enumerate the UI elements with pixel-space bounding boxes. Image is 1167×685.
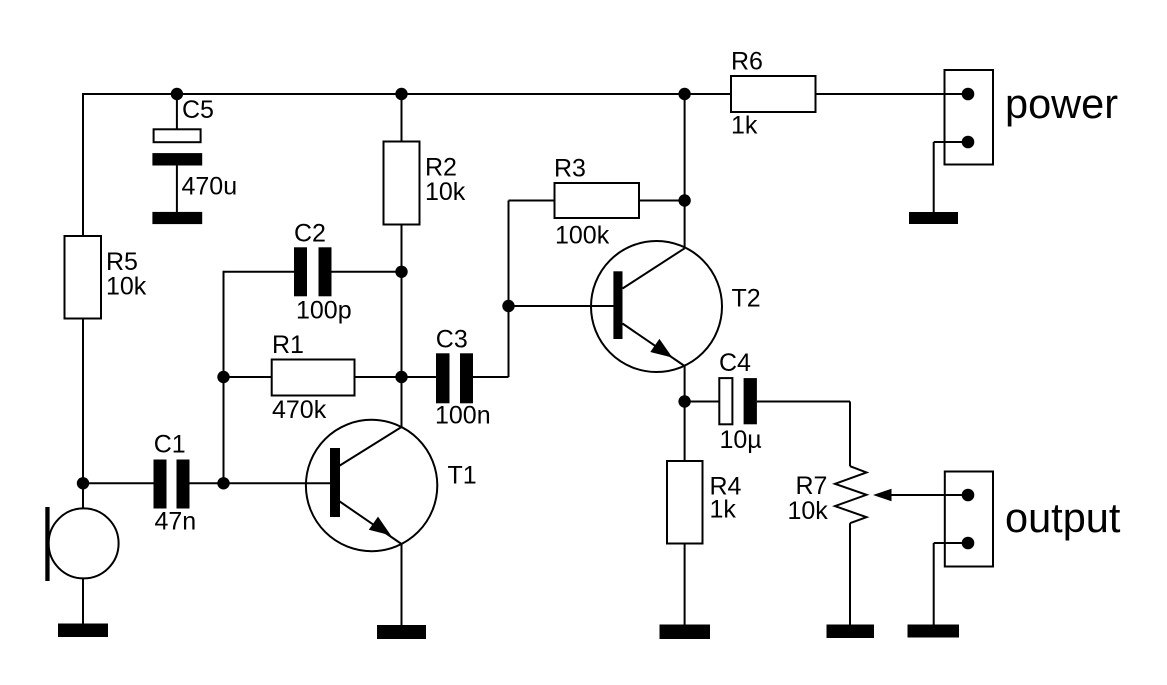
pin output 1 [962, 489, 975, 502]
junction node C1 right [217, 477, 229, 489]
capacitor C3 left plate [436, 353, 450, 403]
wire R4 bottom [684, 544, 686, 627]
wire left vertical mid (R5 to mic) [82, 319, 84, 510]
svg-text:10µ: 10µ [720, 426, 762, 454]
svg-text:470k: 470k [272, 396, 327, 424]
wire C2 right [332, 271, 402, 273]
transistor T2 emitter arrow [650, 339, 672, 358]
ground bar R7 [827, 625, 875, 639]
ground bar power connector [909, 212, 958, 224]
junction node mic C1 [77, 477, 89, 489]
resistor R2 body [384, 142, 420, 225]
svg-text:470u: 470u [182, 172, 238, 200]
microphone element bar [45, 507, 49, 581]
transistor T1 circle [306, 420, 437, 551]
ground bar R4 [660, 625, 711, 640]
svg-text:C1: C1 [154, 431, 186, 459]
resistor R1 body [272, 360, 355, 396]
resistor R3 body [555, 183, 640, 218]
svg-text:1k: 1k [710, 495, 737, 523]
svg-text:C2: C2 [294, 219, 326, 247]
ground bar output connector [908, 625, 960, 638]
wire C5 stem bottom [176, 164, 178, 213]
wire C4 right [757, 401, 850, 403]
capacitor C3 right plate [460, 353, 473, 403]
capacitor C2 left plate [294, 247, 307, 296]
junction node R1 left [217, 371, 229, 383]
ground bar microphone [58, 624, 108, 638]
capacitor C5 negative plate [152, 153, 202, 165]
svg-text:T1: T1 [448, 462, 477, 490]
junction node C4 R4 [678, 395, 690, 407]
potentiometer R7 zigzag [835, 466, 867, 523]
transistor T1 base bar [330, 448, 340, 517]
svg-text:47n: 47n [155, 508, 197, 536]
pin output 2 [962, 537, 975, 550]
junction node C2 right [395, 266, 407, 278]
resistor R5 body [65, 236, 102, 319]
wire power ground vertical [933, 142, 935, 213]
wire C3 to R3 vertical [508, 201, 510, 378]
transistor T2 emitter line [623, 324, 685, 367]
wire top rail left segment [82, 93, 731, 95]
capacitor C4 negative plate [744, 378, 757, 424]
connector power body [945, 70, 994, 165]
wire C5 stem top [176, 94, 178, 131]
wire C3 right [473, 376, 509, 378]
transistor T2 base bar [613, 271, 622, 339]
connector output body [945, 472, 993, 567]
wire C4 left [685, 401, 720, 403]
transistor T1 emitter line [339, 501, 402, 544]
wire C2 left [224, 271, 295, 273]
transistor T1 collector line [339, 427, 402, 466]
junction node R3 right [678, 194, 690, 206]
svg-text:R3: R3 [554, 154, 586, 182]
svg-text:C4: C4 [719, 349, 751, 377]
svg-text:10k: 10k [425, 178, 466, 206]
svg-text:T2: T2 [732, 284, 761, 312]
ground bar below C5 [152, 212, 202, 224]
wire mic to ground [82, 578, 84, 626]
microphone circle [49, 508, 119, 578]
wire T1 emitter vertical [401, 544, 403, 626]
svg-text:100n: 100n [435, 401, 491, 429]
wire R1 left [224, 376, 273, 378]
transistor T2 circle [591, 241, 722, 372]
svg-text:100p: 100p [296, 297, 352, 325]
svg-text:R1: R1 [272, 331, 304, 359]
svg-text:R7: R7 [796, 472, 828, 500]
pin power 2 [962, 136, 975, 149]
capacitor C4 positive plate [719, 378, 732, 424]
ground bar T1 emitter [377, 625, 426, 639]
svg-text:10k: 10k [106, 272, 147, 300]
junction node T2 collector rail [678, 88, 690, 100]
transistor T2 collector line [623, 248, 685, 288]
wire R7 bottom vertical [849, 523, 851, 626]
transistor T1 emitter arrow [369, 517, 391, 536]
potentiometer R7 wiper arrowhead [873, 489, 892, 501]
svg-text:C5: C5 [182, 96, 214, 124]
svg-text:C3: C3 [436, 325, 468, 353]
wire T2 emitter vertical [684, 366, 686, 462]
svg-text:1k: 1k [731, 112, 758, 140]
wire C3 left [402, 376, 437, 378]
junction node R1 right C3 [395, 371, 407, 383]
capacitor C1 right plate [177, 460, 190, 509]
capacitor C5 positive plate [154, 129, 201, 142]
svg-text:10k: 10k [788, 497, 829, 525]
junction node R2 top rail [395, 88, 407, 100]
capacitor C1 left plate [154, 460, 167, 509]
wire left vertical upper [82, 93, 84, 236]
svg-text:output: output [1005, 494, 1121, 541]
wire top rail right segment [816, 93, 969, 95]
junction node C5 top rail [171, 88, 183, 100]
svg-text:100k: 100k [555, 222, 610, 250]
capacitor C2 right plate [319, 247, 332, 296]
wire C1 right to T1 base [190, 482, 331, 484]
wire R7 top vertical [849, 402, 851, 467]
wire R3 left [509, 200, 555, 202]
wire power pin2 [934, 141, 968, 143]
wire R2 bottom to T1 collector [401, 224, 403, 428]
junction node T2 base [502, 300, 514, 312]
wire output ground vertical [933, 543, 935, 626]
svg-text:power: power [1005, 80, 1118, 127]
wire R3 right [639, 200, 685, 202]
pin power 1 [962, 88, 975, 101]
wire R1 right [354, 376, 402, 378]
wire T2 collector vertical [684, 94, 686, 249]
resistor R4 body [667, 461, 703, 544]
wire output pin2 [934, 542, 968, 544]
wire wiper line [889, 494, 968, 496]
resistor R6 body [731, 76, 816, 112]
svg-text:R6: R6 [731, 48, 763, 76]
wire R2 top stem [401, 94, 403, 142]
wire T2 base [509, 305, 614, 307]
wire feedback branch vertical [223, 271, 225, 484]
wire C1 left [83, 482, 154, 484]
